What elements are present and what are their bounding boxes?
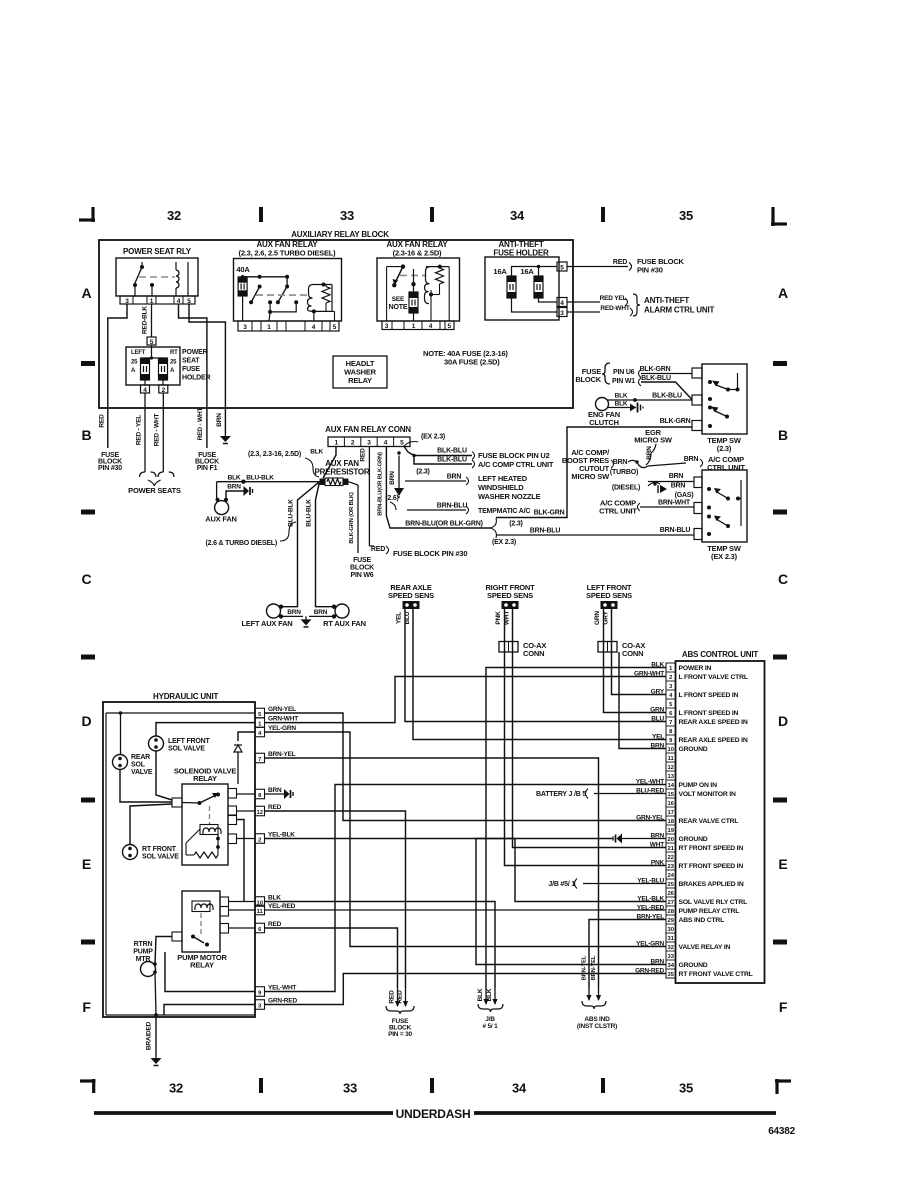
- abs control unit pin column: [666, 663, 676, 978]
- svg-text:ABS CONTROL UNIT: ABS CONTROL UNIT: [682, 650, 759, 659]
- svg-text:10: 10: [667, 747, 673, 753]
- right margin dash: [773, 655, 787, 660]
- wire PNK right front sensor to abs pin 23: [505, 609, 667, 866]
- anti-theft fuse holder top bus wire: [512, 267, 558, 277]
- hydraulic unit inner rail: [105, 713, 107, 1015]
- left margin dash: [81, 940, 95, 945]
- power seat fuse holder pin 2 box: [162, 380, 164, 385]
- svg-text:26: 26: [667, 891, 674, 897]
- wire pump relay to pin 11: [229, 909, 256, 911]
- bracket j/b bottom: [478, 1004, 503, 1012]
- svg-text:RT FRONT VALVE CTRL: RT FRONT VALVE CTRL: [679, 971, 753, 978]
- svg-text:B: B: [778, 427, 788, 443]
- wire solenoid relay tab to pin 12: [237, 810, 256, 812]
- svg-text:RED: RED: [389, 990, 396, 1004]
- wire BLK-GRN to temp switch 2.3: [496, 427, 692, 518]
- abs control unit box: [676, 661, 765, 983]
- svg-text:RTRN: RTRN: [134, 941, 153, 948]
- svg-text:34: 34: [667, 963, 674, 969]
- wire BRN to ground at aux fan: [226, 491, 244, 500]
- svg-text:GROUND: GROUND: [679, 746, 708, 753]
- svg-text:25: 25: [170, 360, 177, 366]
- svg-text:BLK: BLK: [228, 475, 241, 482]
- svg-text:(2.6 & TURBO DIESEL): (2.6 & TURBO DIESEL): [206, 540, 277, 547]
- svg-text:NOTE: NOTE: [389, 304, 408, 311]
- svg-text:F: F: [779, 999, 788, 1015]
- right margin dash: [773, 361, 787, 366]
- fuse block brace: [602, 363, 610, 384]
- wire solenoid relay tab to pin 2: [237, 838, 256, 840]
- svg-text:11: 11: [257, 909, 264, 915]
- wire BLU-BLK to left aux fan: [281, 482, 320, 607]
- svg-text:23: 23: [667, 864, 674, 870]
- temp switch 2.3 tab 3: [692, 421, 702, 431]
- svg-text:5: 5: [447, 323, 451, 330]
- svg-text:4: 4: [560, 300, 564, 307]
- aux fan relay 2 pin strip: [382, 321, 454, 330]
- wire WHT right front sensor to abs pin 21: [513, 609, 667, 848]
- svg-text:BRN: BRN: [447, 474, 462, 481]
- svg-text:E: E: [778, 856, 787, 872]
- svg-text:POWER SEATS: POWER SEATS: [128, 486, 181, 495]
- braided ground wire: [155, 1017, 157, 1055]
- svg-text:BRN: BRN: [227, 484, 241, 491]
- aux fan relay 2 fuse: [411, 282, 415, 286]
- svg-text:BRN: BRN: [669, 473, 684, 480]
- solenoid valve relay box: [182, 784, 228, 865]
- arrows at j/b bottom: [485, 988, 487, 1004]
- wire YEL-BLU j/b to abs pin 25: [583, 883, 666, 885]
- svg-text:25: 25: [131, 360, 138, 366]
- svg-text:5: 5: [560, 265, 564, 272]
- svg-text:AUX FAN RELAY CONN: AUX FAN RELAY CONN: [325, 425, 411, 434]
- bottom ruler corner mark right: [775, 1079, 791, 1082]
- temp switch 2.3 tab 2: [692, 395, 702, 405]
- svg-text:BATTERY J /B 5: BATTERY J /B 5: [536, 791, 586, 798]
- svg-text:SOL VALVE: SOL VALVE: [168, 746, 205, 753]
- svg-text:SOL: SOL: [131, 762, 146, 769]
- svg-text:LEFT FRONT: LEFT FRONT: [168, 738, 210, 745]
- aux fan relay 1 switch arm 1: [251, 285, 260, 302]
- svg-text:3: 3: [125, 298, 129, 305]
- bracket fuse block pin 30 bottom: [386, 1006, 414, 1014]
- fuse RT 25A: [159, 358, 168, 380]
- svg-text:BRN: BRN: [389, 471, 396, 485]
- svg-text:27: 27: [667, 900, 673, 906]
- svg-text:GRN: GRN: [594, 611, 601, 625]
- svg-text:ABS IND CTRL: ABS IND CTRL: [679, 917, 725, 924]
- svg-text:7: 7: [669, 720, 672, 726]
- wire RED hydraulic pin 6 to fuse block pin 30: [265, 928, 398, 988]
- svg-text:LEFT AUX FAN: LEFT AUX FAN: [241, 619, 292, 628]
- svg-text:RED - YEL: RED - YEL: [136, 415, 143, 445]
- svg-text:SPEED SENS: SPEED SENS: [487, 591, 533, 600]
- wire BRN-BLU to temp switch ex 2.3: [496, 534, 694, 536]
- anti-theft alarm ctrl unit brace: [633, 294, 640, 316]
- svg-text:22: 22: [667, 855, 673, 861]
- svg-text:BRN-BLU: BRN-BLU: [437, 503, 468, 510]
- power seat relay coil: [175, 262, 177, 270]
- svg-text:32: 32: [169, 1081, 183, 1096]
- svg-text:RED: RED: [268, 921, 282, 928]
- svg-text:7: 7: [258, 757, 261, 763]
- anti-theft fuse left 16A: [507, 276, 516, 298]
- svg-text:3: 3: [560, 310, 564, 317]
- svg-text:D: D: [82, 713, 92, 729]
- svg-text:12: 12: [667, 765, 673, 771]
- svg-text:RED - WHT: RED - WHT: [197, 408, 204, 441]
- svg-text:D: D: [778, 713, 788, 729]
- temp switch 2.3 tab 1: [692, 368, 702, 378]
- left front sol valve: [149, 736, 164, 751]
- right margin dash: [773, 798, 787, 803]
- wire RED-YEL anti-theft pin 4: [567, 301, 600, 303]
- svg-text:PUMP ON IN: PUMP ON IN: [679, 782, 718, 789]
- svg-text:3: 3: [243, 324, 247, 331]
- svg-text:BLK-BLU: BLK-BLU: [641, 375, 671, 382]
- wire BLK eng fan clutch to suppressor: [607, 407, 636, 409]
- svg-text:YEL-RED: YEL-RED: [268, 903, 296, 910]
- svg-text:BLK-GRN: BLK-GRN: [660, 418, 691, 425]
- pump motor relay output tabs: [220, 897, 229, 907]
- svg-text:(EX 2.3): (EX 2.3): [492, 539, 516, 546]
- svg-text:RED: RED: [613, 259, 627, 266]
- svg-text:C: C: [82, 571, 92, 587]
- svg-text:GRN-WHT: GRN-WHT: [268, 715, 298, 722]
- svg-text:40A: 40A: [236, 265, 250, 274]
- svg-text:1: 1: [334, 440, 338, 447]
- wire BRN-WHT to temp sw ex2.3: [640, 506, 694, 508]
- solenoid valve relay resistor: [194, 852, 218, 858]
- svg-text:2: 2: [351, 440, 355, 447]
- svg-text:16: 16: [667, 801, 674, 807]
- wire BRN to a/c comp ctrl unit (top): [648, 463, 686, 466]
- svg-text:BLK-BLU: BLK-BLU: [437, 448, 467, 455]
- suppressor ground symbol: [630, 404, 636, 412]
- svg-text:5: 5: [400, 440, 404, 447]
- svg-text:BLK: BLK: [268, 894, 281, 901]
- svg-text:A: A: [778, 285, 788, 301]
- wire BRN left aux fan to ground: [279, 614, 283, 618]
- svg-text:FUSE: FUSE: [353, 557, 371, 564]
- pump motor relay input tab: [172, 932, 182, 941]
- svg-text:MICRO SW: MICRO SW: [634, 436, 673, 445]
- svg-text:FUSE: FUSE: [182, 366, 200, 373]
- svg-text:RT: RT: [170, 350, 178, 356]
- wire pump relay to pin 6: [229, 927, 256, 929]
- svg-text:15: 15: [667, 792, 674, 798]
- svg-text:4: 4: [177, 298, 181, 305]
- svg-text:GRN-YEL: GRN-YEL: [268, 706, 296, 713]
- svg-text:YEL-WHT: YEL-WHT: [268, 984, 296, 991]
- wire RED from power seat relay pin 3 to fuse block pin 30: [108, 304, 127, 448]
- svg-text:BLK: BLK: [615, 393, 628, 400]
- svg-text:B: B: [82, 427, 92, 443]
- fuse LEFT 25A: [141, 358, 150, 380]
- left margin dash: [81, 510, 95, 515]
- svg-text:4: 4: [429, 323, 433, 330]
- aux fan relay 1 switch arm 2: [278, 285, 288, 302]
- svg-text:1: 1: [150, 298, 154, 305]
- svg-text:CLUTCH: CLUTCH: [589, 418, 619, 427]
- svg-text:A/C COMP CTRL UNIT: A/C COMP CTRL UNIT: [478, 460, 554, 469]
- diode in hydraulic unit: [234, 745, 242, 752]
- svg-text:TEMPMATIC A/C: TEMPMATIC A/C: [478, 508, 530, 515]
- wire rtrn pump motor up to relay input: [155, 937, 172, 965]
- arrows at abs ind: [588, 988, 590, 1000]
- svg-text:(INST CLSTR): (INST CLSTR): [577, 1023, 617, 1030]
- top ruler tick 3: [601, 207, 605, 222]
- wire fuse holder pin 5 to fuses: [151, 345, 153, 358]
- hydraulic unit box: [103, 702, 255, 1017]
- svg-text:35: 35: [679, 1081, 693, 1096]
- power seat fuse holder box: [126, 347, 180, 385]
- svg-text:J/B: J/B: [485, 1016, 495, 1023]
- top ruler corner mark right: [771, 207, 774, 226]
- UNDERDASH harness bar right segment: [474, 1111, 776, 1115]
- rear sol valve: [113, 755, 128, 770]
- svg-text:UNDERDASH: UNDERDASH: [396, 1107, 471, 1121]
- wire BLU-BLK to right aux fan: [316, 482, 335, 607]
- anti-theft fuse holder box: [485, 257, 559, 320]
- power seat relay dashed actuator link: [139, 276, 175, 278]
- svg-text:30A FUSE (2.5D): 30A FUSE (2.5D): [444, 358, 500, 367]
- temp switch ex2.3 arm 2: [716, 519, 728, 526]
- svg-text:GROUND: GROUND: [679, 962, 708, 969]
- svg-text:RED: RED: [371, 546, 385, 553]
- svg-text:RED: RED: [99, 414, 106, 428]
- svg-text:BLK-GRN: BLK-GRN: [640, 366, 671, 373]
- svg-text:28: 28: [667, 909, 674, 915]
- left margin dash: [81, 361, 95, 366]
- svg-text:L FRONT SPEED IN: L FRONT SPEED IN: [679, 692, 739, 699]
- svg-text:BRN: BRN: [216, 413, 223, 427]
- wire RED-WHT anti-theft pin 3: [567, 311, 600, 313]
- svg-text:RELAY: RELAY: [190, 961, 214, 970]
- wire BLU rear axle sensor to abs pin 9: [413, 609, 666, 740]
- wire hydraulic pin 4 to diode: [238, 732, 255, 741]
- wire GRY left front sensor to abs pin 4: [612, 609, 667, 695]
- solenoid valve relay switch: [182, 802, 200, 805]
- micro switch curl 1: [628, 460, 648, 467]
- ground symbol hydraulic pin 8: [284, 789, 290, 799]
- arrows at fuse block pin 30 bottom: [397, 988, 399, 1006]
- svg-text:HYDRAULIC UNIT: HYDRAULIC UNIT: [153, 692, 219, 701]
- wire GRN-YEL hydraulic pin 5 to abs pin 18: [265, 713, 667, 821]
- svg-text:2: 2: [258, 837, 261, 843]
- svg-text:BRN: BRN: [268, 787, 282, 794]
- svg-text:E: E: [82, 856, 91, 872]
- anti-theft fuse right 16A: [534, 276, 543, 298]
- svg-text:FUSE BLOCK PIN #30: FUSE BLOCK PIN #30: [393, 549, 467, 558]
- aux fan relay 1 40A fuse: [238, 277, 247, 296]
- svg-text:RT FRONT SPEED IN: RT FRONT SPEED IN: [679, 845, 744, 852]
- aux fan motor: [215, 501, 229, 515]
- co-ax connector right front: [499, 642, 518, 653]
- anti-theft fuse bottom wires: [539, 298, 558, 302]
- wire power seat relay pin 4 to fuse block pin F1: [179, 304, 207, 448]
- svg-text:BRN: BRN: [314, 609, 328, 616]
- temp switch 2.3 arm 1: [716, 385, 728, 390]
- svg-text:BLK-GRN (OR BLK): BLK-GRN (OR BLK): [349, 492, 355, 543]
- temp switch ex 2.3 box: [702, 470, 747, 542]
- anti-theft fuse holder pin 5 tab: [557, 262, 567, 271]
- diode arrow symbol: [660, 485, 667, 493]
- aux fan relay 2 coil: [425, 267, 431, 304]
- svg-text:34: 34: [510, 208, 525, 223]
- wire BRN abs pin 20 to ground: [622, 838, 666, 840]
- aux fan relay connector strip: [328, 437, 410, 447]
- svg-text:AUXILIARY RELAY BLOCK: AUXILIARY RELAY BLOCK: [291, 230, 389, 239]
- headlight washer relay box: [333, 356, 387, 388]
- svg-text:33: 33: [340, 208, 354, 223]
- right margin dash: [773, 510, 787, 515]
- pump motor relay coil: [192, 901, 210, 912]
- svg-text:RELAY: RELAY: [193, 774, 217, 783]
- top ruler tick 1: [259, 207, 263, 222]
- svg-text:ALARM CTRL UNIT: ALARM CTRL UNIT: [644, 306, 714, 315]
- svg-text:18: 18: [667, 819, 674, 825]
- wire pin 9 to pump relay bottom: [165, 952, 255, 992]
- svg-text:BLU-BLK: BLU-BLK: [246, 475, 274, 482]
- svg-text:PIN #30: PIN #30: [637, 266, 663, 275]
- solenoid valve relay dashed link: [209, 806, 211, 824]
- wire BLK-BLU conn pin5 to fuse block pin U2: [404, 447, 472, 456]
- svg-text:3: 3: [385, 323, 389, 330]
- temp switch ex2.3 tab 1: [694, 477, 702, 488]
- svg-text:RED YEL: RED YEL: [600, 295, 627, 302]
- svg-text:RT FRONT SPEED IN: RT FRONT SPEED IN: [679, 863, 744, 870]
- temp switch 2.3 contacts: [708, 380, 712, 384]
- ground symbol aux fans: [305, 616, 307, 619]
- hydraulic unit pin boxes: [255, 708, 265, 718]
- wire left front sol valve to relay input: [156, 751, 172, 800]
- svg-text:31: 31: [667, 936, 674, 942]
- svg-text:ANTI-THEFT: ANTI-THEFT: [644, 296, 689, 305]
- svg-text:L FRONT VALVE CTRL: L FRONT VALVE CTRL: [679, 674, 748, 681]
- svg-text:5: 5: [333, 324, 337, 331]
- svg-text:RED - WHT: RED - WHT: [154, 414, 161, 447]
- aux fan relay 1 dashed actuator link: [256, 294, 308, 296]
- power seats connector hooks: [140, 472, 157, 477]
- svg-text:35: 35: [667, 972, 674, 978]
- svg-text:SEE: SEE: [392, 296, 405, 303]
- wire YEL-GRN hydraulic pin 4 to abs pin 32: [265, 732, 667, 947]
- svg-text:HOLDER: HOLDER: [182, 375, 211, 382]
- co-ax connector left front: [598, 642, 617, 653]
- power seat fuse holder pin 4 box: [144, 380, 146, 385]
- svg-text:PUMP RELAY CTRL: PUMP RELAY CTRL: [679, 908, 740, 915]
- svg-text:PIN U6: PIN U6: [613, 369, 635, 376]
- anti-theft fuse holder pin 4 tab: [557, 298, 567, 307]
- solenoid valve relay input tab: [172, 798, 182, 807]
- svg-text:BRN-YEL: BRN-YEL: [582, 955, 588, 980]
- solenoid valve relay output tabs: [228, 789, 237, 799]
- svg-text:LEFT: LEFT: [131, 350, 146, 356]
- svg-text:LEFT HEATED: LEFT HEATED: [478, 474, 528, 483]
- wire hydraulic pin 5 to rear sol valve: [106, 712, 255, 714]
- svg-text:20: 20: [667, 837, 673, 843]
- svg-text:REAR AXLE SPEED IN: REAR AXLE SPEED IN: [679, 719, 748, 726]
- svg-text:AUX FAN: AUX FAN: [205, 515, 237, 524]
- svg-text:29: 29: [667, 918, 674, 924]
- svg-text:5: 5: [150, 339, 154, 346]
- svg-text:4: 4: [384, 440, 388, 447]
- svg-text:C: C: [778, 571, 788, 587]
- wire RED-WHT fuse holder pin 2 to power seats: [162, 393, 164, 472]
- temp switch ex2.3 tab 3: [694, 529, 702, 540]
- top ruler tick 2: [430, 207, 434, 222]
- svg-text:16A: 16A: [493, 267, 507, 276]
- svg-text:# 5/ 1: # 5/ 1: [482, 1023, 498, 1030]
- temp switch ex2.3 internal link: [740, 480, 742, 526]
- power seat relay switch contact: [140, 265, 144, 269]
- pump motor relay dashed link: [200, 913, 202, 934]
- svg-text:12: 12: [256, 810, 262, 816]
- aux fan relay 2 dashed actuator link: [400, 274, 426, 276]
- svg-text:13: 13: [667, 774, 674, 780]
- svg-text:BLK-BLU: BLK-BLU: [437, 457, 467, 464]
- svg-text:BRN-YEL: BRN-YEL: [268, 751, 296, 758]
- ground symbol abs pin 20: [617, 834, 623, 844]
- wire solenoid relay tab3 to pump relay tab: [237, 820, 245, 902]
- svg-text:3: 3: [367, 440, 371, 447]
- wire rear sol valve to relay input: [120, 770, 172, 803]
- svg-text:35: 35: [679, 208, 693, 223]
- svg-text:(GAS): (GAS): [675, 492, 694, 499]
- svg-text:30: 30: [667, 927, 673, 933]
- wire BLK-GRN fuse block U6 to temp sw 2.3: [641, 373, 692, 375]
- svg-text:YEL-BLK: YEL-BLK: [268, 831, 295, 838]
- temp switch 2.3 arm 2: [715, 411, 727, 417]
- wire YEL-RED hydraulic pin 11 to abs pin 28: [265, 909, 667, 911]
- svg-text:BRN-BLU: BRN-BLU: [660, 527, 691, 534]
- ground symbol BRN power seat relay: [224, 433, 226, 436]
- wire BLK-BLU to a/c comp ctrl unit: [414, 456, 472, 465]
- svg-text:BLK-GRN: BLK-GRN: [534, 510, 565, 517]
- svg-text:A: A: [82, 285, 92, 301]
- wire BLU-RED battery j/b to abs pin 15: [594, 793, 666, 795]
- svg-text:BRN-BLU(OR BLK-GRN): BRN-BLU(OR BLK-GRN): [378, 452, 384, 516]
- pump motor relay switch: [191, 935, 195, 939]
- svg-text:5: 5: [187, 298, 191, 305]
- svg-text:BRAKES APPLIED IN: BRAKES APPLIED IN: [679, 881, 744, 888]
- svg-text:19: 19: [667, 828, 674, 834]
- svg-text:CTRL UNIT: CTRL UNIT: [599, 507, 637, 516]
- svg-text:(EX 2.3): (EX 2.3): [711, 552, 738, 561]
- wire BRN right aux fan to ground: [332, 614, 336, 618]
- svg-text:BRAIDED: BRAIDED: [146, 1021, 153, 1050]
- svg-text:ABS IND: ABS IND: [584, 1016, 610, 1023]
- svg-text:BRN-BLU: BRN-BLU: [530, 528, 561, 535]
- svg-text:CONN: CONN: [523, 649, 544, 658]
- svg-text:BLOCK: BLOCK: [575, 375, 601, 384]
- svg-text:BLK: BLK: [477, 988, 484, 1001]
- svg-text:(2.3): (2.3): [717, 444, 732, 453]
- svg-text:21: 21: [667, 846, 674, 852]
- svg-text:VALVE: VALVE: [131, 769, 153, 776]
- svg-text:GROUND: GROUND: [679, 836, 708, 843]
- aux fan relay 1 pin strip: [238, 321, 339, 331]
- wire BLK-BLU fuse block W1: [641, 382, 692, 400]
- svg-text:BLK: BLK: [615, 401, 628, 408]
- svg-text:SPEED SENS: SPEED SENS: [586, 591, 632, 600]
- svg-text:RED: RED: [360, 448, 367, 462]
- ground symbol braided: [155, 1055, 157, 1058]
- svg-text:REAR AXLE SPEED IN: REAR AXLE SPEED IN: [679, 737, 748, 744]
- temp switch 2.3 box: [702, 364, 747, 434]
- svg-text:(2.3-16 & 2.5D): (2.3-16 & 2.5D): [393, 249, 442, 258]
